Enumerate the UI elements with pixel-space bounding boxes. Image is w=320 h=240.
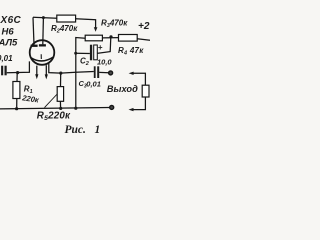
svg-text:Н6: Н6 xyxy=(2,26,15,37)
svg-text:1: 1 xyxy=(95,124,101,136)
wire R3 to R4 xyxy=(102,37,118,39)
output terminal bottom xyxy=(110,105,114,109)
svg-text:Рис.: Рис. xyxy=(65,124,86,136)
svg-text:Выход: Выход xyxy=(107,84,138,94)
wire R4 right lead to +250V xyxy=(137,39,150,41)
svg-text:АЛ5: АЛ5 xyxy=(0,38,18,49)
svg-text:+2: +2 xyxy=(138,21,150,32)
tube V1 cathode stub xyxy=(40,54,42,59)
tube V1 right anode xyxy=(39,44,46,46)
arrow to load top xyxy=(129,72,134,75)
svg-text:0,01: 0,01 xyxy=(86,79,101,88)
capacitor C2 positive plate xyxy=(94,45,98,60)
ground rail xyxy=(0,108,110,109)
arrow pointing at R3 xyxy=(94,27,98,32)
wire R1 top lead xyxy=(16,73,18,82)
arrow to load bottom xyxy=(133,97,145,110)
node input R1 dot xyxy=(16,71,19,74)
resistor R2 xyxy=(57,15,76,22)
wire R3 left lead and long vertical to rail xyxy=(76,38,85,109)
wire C2 right lead up to node xyxy=(97,37,111,53)
wire input lead to tube xyxy=(7,61,30,72)
wire R5 top lead xyxy=(60,73,62,87)
resistor R1 xyxy=(13,82,20,99)
heater lead arrow right xyxy=(45,65,47,75)
wire R2 to corner xyxy=(76,19,96,28)
resistor R5 xyxy=(57,87,63,102)
svg-text:R2470к: R2470к xyxy=(51,24,78,35)
node C2 tap dot xyxy=(74,52,77,55)
R5 label leader line xyxy=(45,94,58,108)
capacitor C3 left plate xyxy=(94,66,96,78)
wire C2 left lead xyxy=(76,52,90,54)
svg-text:Х6С: Х6С xyxy=(0,15,22,26)
wire C3 to output terminal xyxy=(99,71,108,73)
svg-text:R3470к: R3470к xyxy=(101,19,128,30)
svg-text:R5220к: R5220к xyxy=(37,110,71,122)
svg-text:10,0: 10,0 xyxy=(97,58,112,67)
node R5 rail dot xyxy=(59,107,62,110)
wire top rail left segment xyxy=(33,16,57,19)
capacitor C1 right plate xyxy=(5,66,7,76)
capacitor C2 negative plate xyxy=(90,45,92,61)
capacitor C3 right plate xyxy=(97,66,99,78)
wire R1 bottom lead xyxy=(16,99,18,109)
resistor R4 xyxy=(119,35,138,42)
tube V1 cathode arc xyxy=(31,57,54,61)
wire cathode to output xyxy=(49,63,94,73)
node R1 rail dot xyxy=(15,107,18,110)
wire left anode lead xyxy=(33,17,34,44)
svg-text:+: + xyxy=(98,43,103,52)
svg-text:0,01: 0,01 xyxy=(0,54,13,63)
node R3 R4 C2 junction dot xyxy=(109,35,112,38)
load resistor xyxy=(142,85,149,97)
tube V1 envelope xyxy=(30,40,55,65)
wire R5 bottom lead xyxy=(59,101,61,108)
capacitor C1 left plate xyxy=(1,66,3,76)
node R5 tap dot xyxy=(59,72,62,75)
resistor R3 xyxy=(85,35,102,41)
svg-text:R4 47к: R4 47к xyxy=(118,46,144,57)
node anode junction dot xyxy=(42,16,45,19)
heater lead arrow left xyxy=(36,66,38,75)
node vertical rail dot xyxy=(74,107,77,110)
wire right anode lead xyxy=(42,18,45,45)
output terminal top xyxy=(109,71,113,75)
tube V1 left anode xyxy=(31,45,38,47)
